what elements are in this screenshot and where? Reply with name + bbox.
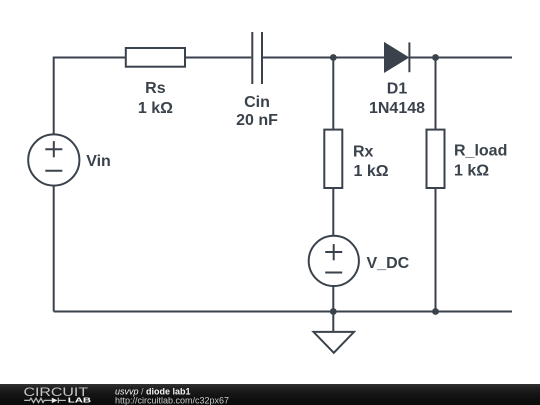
voltage source V_DC	[309, 236, 359, 286]
wire R_load bottom	[435, 188, 437, 312]
wire V_DC bottom	[332, 286, 334, 311]
node junction top R_load	[432, 54, 439, 61]
wire top segment D1 to right end	[409, 57, 512, 59]
wire ground stub	[332, 312, 334, 332]
wire Rx bottom to V_DC	[332, 188, 334, 236]
wire bottom horizontal	[54, 311, 512, 313]
resistor Rx	[324, 130, 342, 188]
resistor R_load	[427, 130, 445, 188]
diode D1	[385, 42, 409, 72]
svg-text:1 kΩ: 1 kΩ	[138, 100, 173, 117]
svg-text:1 kΩ: 1 kΩ	[354, 163, 389, 180]
svg-text:Vin: Vin	[86, 153, 111, 170]
svg-text:V_DC: V_DC	[367, 255, 410, 272]
svg-text:D1: D1	[387, 80, 408, 97]
wire R_load top	[435, 58, 437, 130]
wire top segment Rs to Cin	[185, 57, 251, 59]
logo resistor-diode squiggle	[24, 398, 66, 403]
svg-text:R_load: R_load	[454, 143, 507, 160]
svg-text:Rs: Rs	[145, 80, 166, 97]
node junction bottom V_DC	[330, 308, 337, 315]
wire left vertical below Vin	[53, 186, 55, 312]
svg-text:Rx: Rx	[353, 144, 374, 161]
node junction top Rx	[330, 54, 337, 61]
svg-text:Cin: Cin	[244, 94, 270, 111]
footer bar	[0, 384, 540, 405]
svg-text:1N4148: 1N4148	[369, 100, 425, 117]
wire top segment left (Vin corner to Rs)	[54, 58, 126, 135]
voltage source Vin	[28, 134, 79, 185]
wire top segment Cin to D1	[263, 57, 385, 59]
wire Rx top (node to Rx)	[332, 58, 334, 130]
svg-text:1 kΩ: 1 kΩ	[454, 163, 489, 180]
svg-text:20 nF: 20 nF	[236, 112, 278, 129]
svg-text:LAB: LAB	[68, 395, 91, 404]
node junction bottom R_load	[432, 308, 439, 315]
svg-text:http://circuitlab.com/c32px67: http://circuitlab.com/c32px67	[115, 396, 229, 405]
ground	[314, 332, 355, 353]
resistor Rs	[126, 48, 185, 67]
capacitor Cin	[252, 32, 262, 84]
